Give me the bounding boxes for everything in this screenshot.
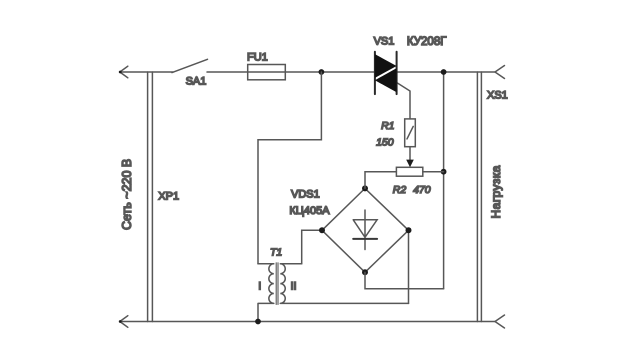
transformer T1 secondary winding II	[280, 264, 408, 304]
svg-text:VDS1: VDS1	[291, 189, 320, 201]
svg-text:XS1: XS1	[487, 90, 508, 102]
diode inside bridge	[353, 210, 377, 250]
transformer T1 core	[276, 263, 278, 305]
svg-text:R1: R1	[381, 120, 394, 132]
wire secondary top to bridge left corner	[302, 230, 322, 263]
R2 wiper arrow	[406, 160, 414, 168]
resistor R1 power slash	[407, 126, 413, 138]
node: R2 right / right vertical	[441, 169, 447, 175]
svg-text:КУ208Г: КУ208Г	[407, 36, 447, 48]
svg-text:XP1: XP1	[158, 191, 179, 203]
wire top bus	[120, 71, 495, 73]
wire bridge top corner to R2 left	[365, 172, 396, 189]
triac VS1 triangle lower	[375, 68, 397, 92]
resistor R1 body	[405, 119, 416, 147]
connector XP1 double-line	[148, 72, 153, 322]
diode cathode bar	[353, 238, 377, 240]
triac VS1 triangle upper	[375, 54, 397, 78]
wire bridge bottom corner to right vertical	[365, 272, 444, 289]
node: T1 primary to bottom bus	[255, 319, 261, 325]
svg-text:II: II	[291, 280, 297, 292]
svg-text:КЦ405А: КЦ405А	[289, 205, 330, 217]
resistor R2 potentiometer body	[396, 167, 422, 176]
XP1 pin arrow top	[120, 66, 128, 78]
bridge corner node bottom	[362, 269, 368, 275]
node: junction FU1-VS1 / T1 primary	[319, 69, 325, 75]
bridge corner node right	[406, 227, 412, 233]
bridge corner node left	[319, 227, 325, 233]
wire R2 right lead	[423, 171, 444, 173]
switch SA1 blade	[172, 59, 208, 72]
wire right vertical (load side)	[443, 72, 445, 289]
bridge corner node top	[362, 185, 368, 191]
bridge VDS1 diamond	[322, 188, 409, 272]
wire bottom bus	[120, 321, 495, 323]
svg-text:Нагрузка: Нагрузка	[489, 165, 503, 218]
svg-text:T1: T1	[270, 247, 282, 259]
transformer T1 primary winding I	[258, 264, 274, 322]
svg-text:VS1: VS1	[374, 35, 395, 47]
wire R1 bottom to R2 wiper	[409, 147, 411, 160]
XP1 pin arrow bottom	[120, 316, 128, 328]
wire from junction down-left to T1 primary	[258, 72, 321, 264]
svg-text:150: 150	[376, 137, 394, 149]
connector XS1 double-line	[477, 72, 481, 322]
svg-text:470: 470	[413, 184, 431, 196]
svg-text:FU1: FU1	[247, 52, 268, 64]
XS1 socket fork top	[495, 66, 505, 79]
triac VS1 electrode bars	[375, 52, 397, 94]
svg-text:SA1: SA1	[186, 75, 207, 87]
wire secondary bottom to bridge right corner	[408, 230, 410, 303]
XS1 socket fork bottom	[495, 315, 505, 328]
svg-text:Сеть ~220 В: Сеть ~220 В	[120, 159, 134, 230]
svg-text:I: I	[258, 280, 261, 292]
svg-text:R2: R2	[393, 184, 407, 196]
fuse FU1	[248, 65, 286, 80]
triac VS1 gate wire	[397, 83, 410, 119]
node: top wire / right vertical	[441, 69, 447, 75]
